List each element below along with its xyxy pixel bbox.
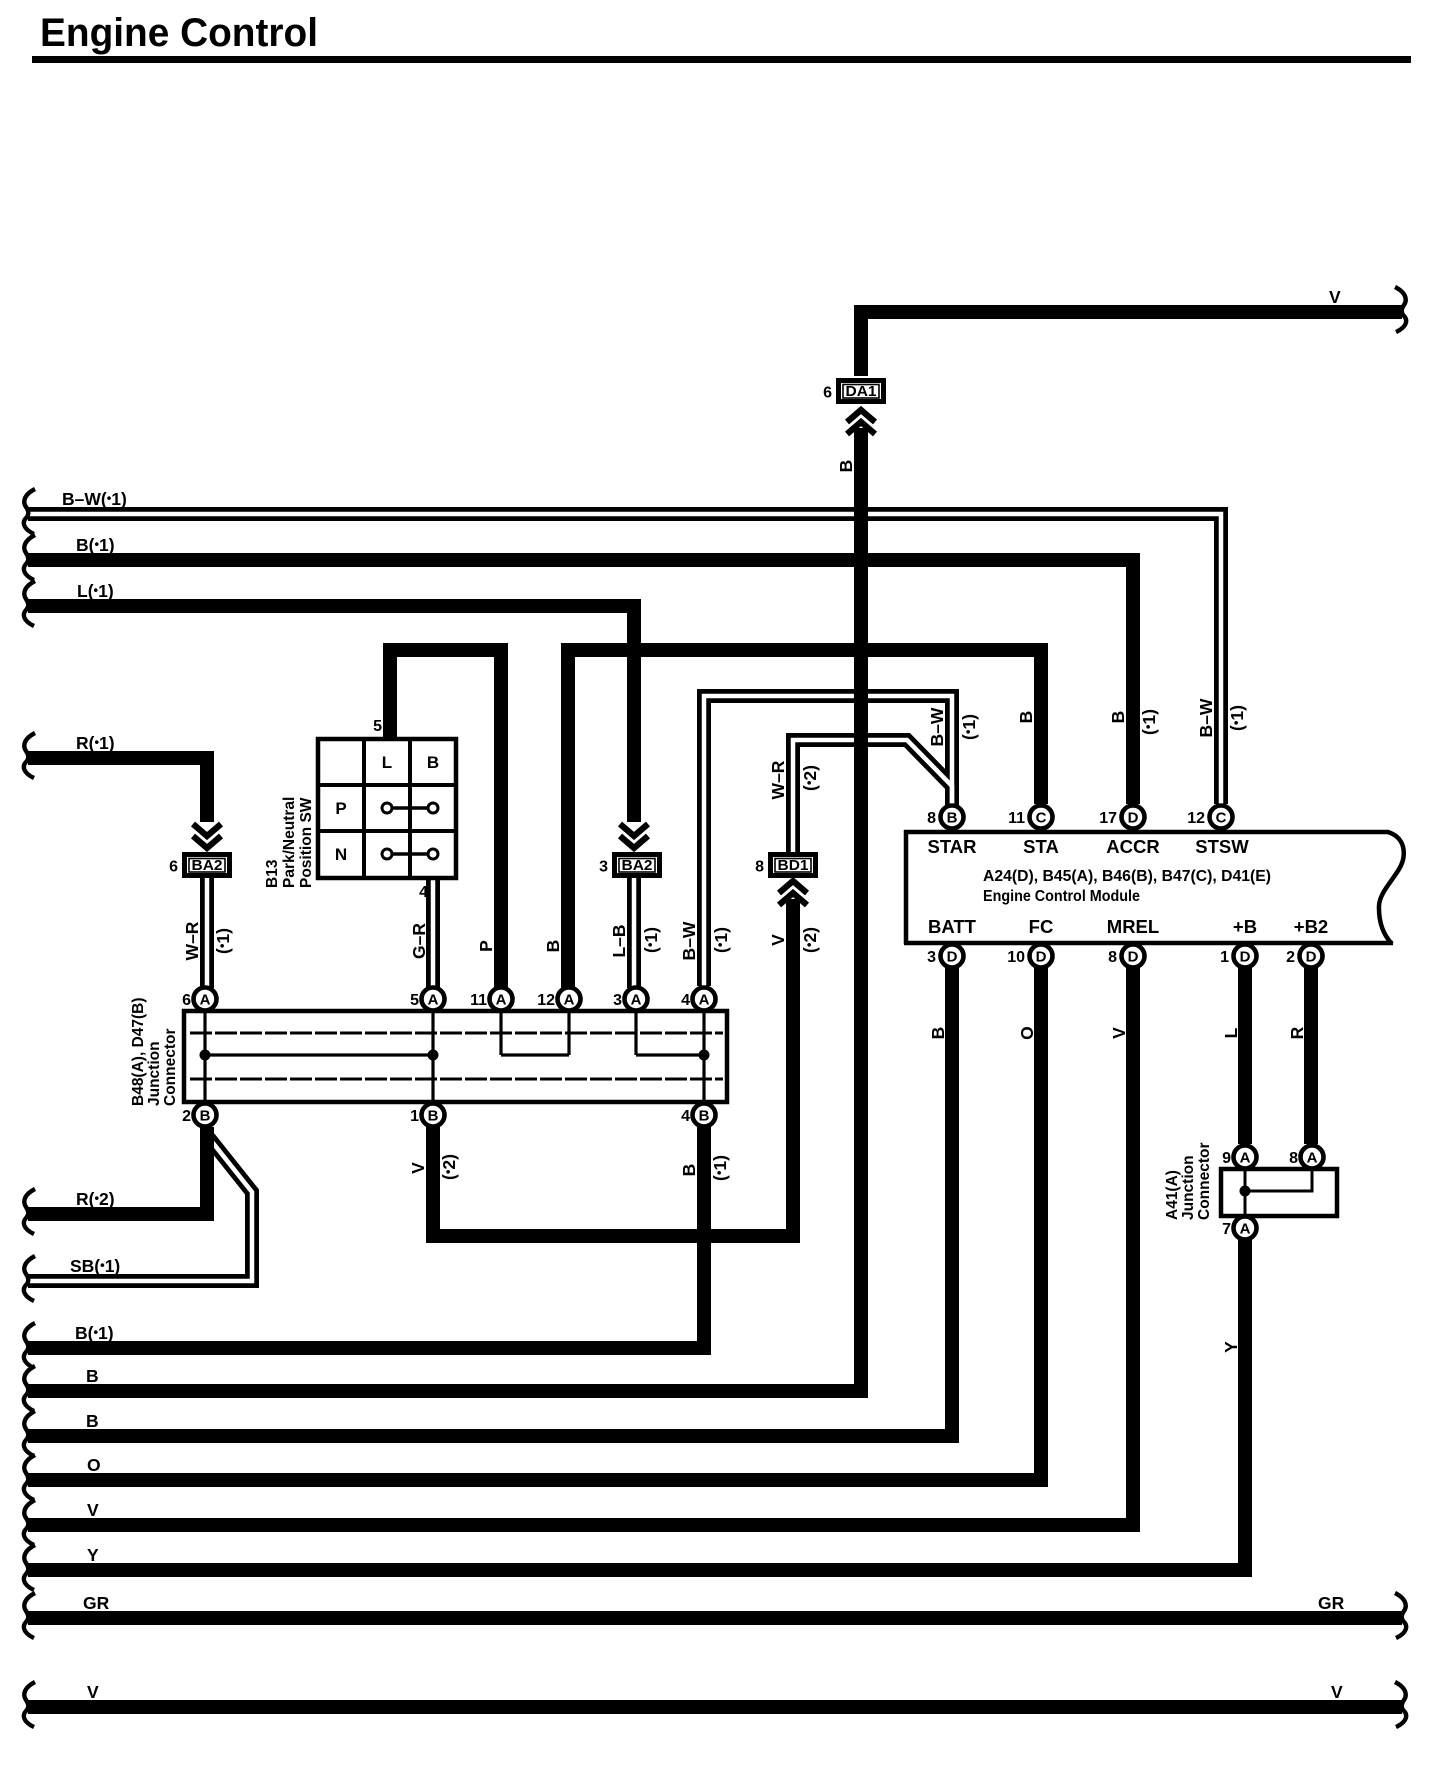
- svg-text:B–W(•1): B–W(•1): [62, 489, 127, 509]
- svg-text:D: D: [1036, 949, 1047, 966]
- svg-text:W–R: W–R: [768, 760, 788, 799]
- svg-text:N: N: [335, 845, 347, 864]
- svg-text:SB(•1): SB(•1): [70, 1256, 120, 1276]
- svg-text:B: B: [699, 1108, 710, 1125]
- svg-text:STAR: STAR: [928, 836, 977, 857]
- svg-text:3: 3: [599, 859, 608, 876]
- svg-text:B–W: B–W: [679, 921, 699, 960]
- svg-text:A: A: [631, 992, 642, 1009]
- svg-text:10: 10: [1007, 949, 1025, 966]
- svg-text:FC: FC: [1029, 916, 1054, 937]
- svg-text:4: 4: [419, 884, 428, 901]
- svg-text:A: A: [1240, 1221, 1251, 1238]
- svg-text:GR: GR: [1318, 1593, 1345, 1613]
- svg-text:4: 4: [681, 1108, 690, 1125]
- svg-text:A41(A): A41(A): [1164, 1170, 1181, 1220]
- svg-text:6: 6: [169, 859, 178, 876]
- svg-text:R: R: [1287, 1026, 1307, 1039]
- svg-text:V: V: [1109, 1027, 1129, 1039]
- svg-text:3: 3: [927, 949, 936, 966]
- svg-text:11: 11: [470, 992, 487, 1009]
- svg-text:B: B: [428, 1108, 439, 1125]
- svg-text:B: B: [543, 940, 563, 953]
- svg-text:O: O: [1017, 1026, 1037, 1040]
- svg-text:V: V: [768, 934, 788, 946]
- svg-text:Y: Y: [1221, 1341, 1241, 1353]
- svg-text:O: O: [87, 1455, 101, 1475]
- svg-text:L: L: [1221, 1027, 1241, 1038]
- svg-text:4: 4: [681, 992, 690, 1009]
- svg-text:A: A: [1240, 1150, 1251, 1167]
- svg-text:B: B: [427, 753, 439, 772]
- svg-text:11: 11: [1008, 810, 1025, 827]
- svg-text:A: A: [496, 992, 507, 1009]
- svg-text:ACCR: ACCR: [1106, 836, 1159, 857]
- svg-text:BD1: BD1: [778, 857, 809, 874]
- svg-text:V: V: [87, 1682, 99, 1702]
- svg-text:D: D: [1306, 949, 1317, 966]
- svg-text:Connector: Connector: [162, 1029, 179, 1107]
- svg-text:A: A: [200, 992, 211, 1009]
- svg-text:8: 8: [755, 859, 764, 876]
- svg-text:A: A: [699, 992, 710, 1009]
- svg-text:B: B: [947, 810, 958, 827]
- svg-text:12: 12: [1187, 810, 1205, 827]
- svg-text:A: A: [1307, 1150, 1318, 1167]
- svg-text:D: D: [1240, 949, 1251, 966]
- svg-text:+B: +B: [1233, 916, 1257, 937]
- svg-text:(•1): (•1): [213, 928, 233, 954]
- svg-text:1: 1: [410, 1108, 419, 1125]
- svg-text:G–R: G–R: [409, 923, 429, 959]
- svg-text:B: B: [86, 1411, 99, 1431]
- svg-text:B: B: [86, 1366, 99, 1386]
- svg-text:(•1): (•1): [1139, 709, 1159, 735]
- svg-text:W–R: W–R: [182, 921, 202, 960]
- svg-text:1: 1: [1220, 949, 1229, 966]
- svg-text:7: 7: [1222, 1221, 1231, 1238]
- svg-text:8: 8: [1108, 949, 1117, 966]
- svg-text:6: 6: [823, 385, 832, 402]
- svg-text:B: B: [679, 1164, 699, 1177]
- svg-text:3: 3: [613, 992, 622, 1009]
- svg-text:V: V: [408, 1162, 428, 1174]
- svg-text:B–W: B–W: [1196, 698, 1216, 737]
- svg-text:L: L: [382, 753, 392, 772]
- svg-text:B: B: [1016, 711, 1036, 724]
- svg-text:MREL: MREL: [1107, 916, 1159, 937]
- svg-text:(•1): (•1): [641, 927, 661, 953]
- svg-text:5: 5: [373, 718, 382, 735]
- svg-text:(•1): (•1): [1227, 705, 1247, 731]
- svg-text:A: A: [428, 992, 439, 1009]
- svg-text:Position SW: Position SW: [298, 797, 315, 888]
- svg-text:BATT: BATT: [928, 916, 977, 937]
- svg-text:STSW: STSW: [1195, 836, 1249, 857]
- svg-text:5: 5: [410, 992, 419, 1009]
- svg-text:(•2): (•2): [439, 1154, 459, 1180]
- svg-text:17: 17: [1099, 810, 1117, 827]
- svg-text:D: D: [947, 949, 958, 966]
- svg-text:2: 2: [182, 1108, 191, 1125]
- svg-text:8: 8: [1289, 1150, 1298, 1167]
- svg-text:B48(A), D47(B): B48(A), D47(B): [130, 997, 147, 1106]
- svg-text:Junction: Junction: [1180, 1155, 1197, 1220]
- svg-text:A24(D), B45(A), B46(B), B47(C): A24(D), B45(A), B46(B), B47(C), D41(E): [983, 868, 1271, 885]
- svg-text:B–W: B–W: [927, 707, 947, 746]
- svg-text:BA2: BA2: [622, 857, 653, 874]
- svg-text:Park/Neutral: Park/Neutral: [281, 797, 298, 888]
- svg-text:Connector: Connector: [1196, 1143, 1213, 1221]
- svg-text:V: V: [1331, 1682, 1343, 1702]
- svg-text:(•1): (•1): [710, 1155, 730, 1181]
- svg-text:D: D: [1128, 810, 1139, 827]
- svg-text:L–B: L–B: [609, 924, 629, 957]
- svg-text:B: B: [928, 1027, 948, 1040]
- svg-text:B: B: [1108, 711, 1128, 724]
- svg-text:C: C: [1216, 810, 1227, 827]
- svg-text:GR: GR: [83, 1593, 110, 1613]
- svg-text:Y: Y: [87, 1545, 99, 1565]
- svg-text:P: P: [476, 940, 496, 952]
- svg-text:DA1: DA1: [846, 383, 877, 400]
- svg-text:Junction: Junction: [146, 1041, 163, 1106]
- svg-text:(•2): (•2): [800, 765, 820, 791]
- svg-text:V: V: [1329, 287, 1341, 307]
- svg-text:B13: B13: [264, 859, 281, 888]
- svg-text:Engine Control: Engine Control: [40, 11, 318, 55]
- svg-text:P: P: [335, 799, 346, 818]
- svg-text:D: D: [1128, 949, 1139, 966]
- svg-text:STA: STA: [1023, 836, 1059, 857]
- svg-text:12: 12: [537, 992, 555, 1009]
- svg-text:(•1): (•1): [711, 927, 731, 953]
- svg-text:B: B: [200, 1108, 211, 1125]
- svg-text:6: 6: [182, 992, 191, 1009]
- svg-text:C: C: [1036, 810, 1047, 827]
- svg-text:+B2: +B2: [1294, 916, 1328, 937]
- svg-text:A: A: [564, 992, 575, 1009]
- svg-text:V: V: [87, 1500, 99, 1520]
- svg-text:(•2): (•2): [800, 927, 820, 953]
- svg-text:9: 9: [1222, 1150, 1231, 1167]
- svg-text:8: 8: [927, 810, 936, 827]
- svg-text:B: B: [836, 460, 856, 473]
- svg-text:BA2: BA2: [192, 857, 223, 874]
- svg-text:Engine Control Module: Engine Control Module: [983, 888, 1140, 905]
- svg-text:2: 2: [1286, 949, 1295, 966]
- svg-text:(•1): (•1): [959, 714, 979, 740]
